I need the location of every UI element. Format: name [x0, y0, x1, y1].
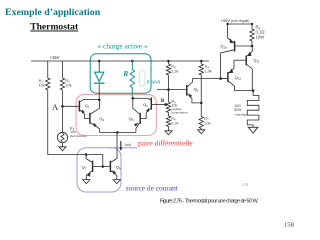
junction: Q7-Q8 base tie [102, 165, 105, 168]
svg-text:paire différentielle: paire différentielle [138, 139, 193, 148]
diode D (teal) [95, 72, 104, 81]
svg-text:0.5mA: 0.5mA [147, 81, 161, 86]
junction: R4 / +15V rail [167, 60, 170, 63]
transistor Q3 (inner left) [89, 113, 91, 124]
svg-text:R: R [122, 69, 128, 78]
svg-text:Thermostat: Thermostat [30, 22, 79, 33]
resistor R2 10k [62, 61, 64, 78]
wire: collector node to Q4 [133, 97, 148, 99]
junction: diode / Q1-Q3 collectors [98, 99, 101, 102]
ground (R6) [165, 131, 172, 135]
thermistor RT [57, 132, 67, 142]
ground (Q8) [113, 180, 120, 184]
transistor Q9 [186, 85, 188, 96]
svg-text:2.2k: 2.2k [171, 121, 178, 125]
junction: diode / +15V rail [98, 60, 101, 63]
potentiometer R5 10k [166, 102, 170, 113]
wire: R3 down through crossing to emitter node [200, 75, 202, 117]
junction: common emitters / Q8 collector [116, 131, 119, 134]
junction: Q9 emitter / R3 / R7 [200, 102, 203, 105]
svg-text:10k: 10k [65, 84, 71, 88]
svg-text:Q5: Q5 [129, 116, 134, 122]
wire: R2 to thermistor [62, 90, 64, 132]
transistor Q1 (outer left) [78, 101, 80, 112]
svg-text:10W: 10W [256, 35, 265, 40]
svg-text:170: 170 [242, 183, 248, 187]
junction: R1 / Q7 collector [85, 153, 88, 156]
1mA current arrow [120, 141, 122, 149]
junction: R / +15V rail [131, 60, 134, 63]
wire: Q9 collector to Q12 base [193, 78, 228, 80]
svg-text:10k: 10k [204, 121, 210, 125]
current loop ghost [139, 71, 145, 87]
wire: R1 down to current source [48, 90, 103, 167]
svg-text:1mA: 1mA [124, 143, 132, 147]
svg-text:158: 158 [284, 222, 295, 229]
junction: Q10 collector / Q12 base [219, 77, 222, 80]
svg-text:Exemple d’application: Exemple d’application [5, 7, 101, 18]
resistor R6 2.2k [168, 113, 170, 117]
wire: R4 to pot [168, 75, 170, 102]
transistor Q12 [227, 72, 229, 82]
ground (heater) [248, 127, 258, 133]
transistor Q10 [234, 41, 236, 52]
junction: heater top node [252, 89, 255, 92]
transistor Q5 (inner right) [139, 113, 141, 124]
transistor Q7 (current source left) [92, 161, 94, 172]
svg-text:Q12: Q12 [235, 75, 242, 81]
svg-text:A: A [52, 102, 59, 112]
heater resistor 10ohm 50W chauffage [252, 91, 254, 96]
svg-text:2.2k: 2.2k [171, 69, 178, 73]
svg-text:10Ω: 10Ω [234, 104, 241, 108]
svg-text:Q9: Q9 [194, 87, 199, 93]
box: charge active (teal) [90, 54, 151, 93]
ground (thermistor) [59, 147, 66, 151]
common emitter wire [100, 131, 136, 133]
junction: Q9 base / divider [167, 88, 170, 91]
svg-text:Q1: Q1 [85, 103, 90, 109]
junction: R / Q4-Q5 collectors [132, 97, 135, 100]
wire: blue box top overshoot [108, 147, 137, 149]
wire: thermistor to ground [62, 143, 64, 147]
box: source de courant (blue) [77, 148, 121, 192]
wire: +15V rail [31, 60, 209, 62]
svg-text:1,0k: 1,0k [205, 69, 212, 73]
box: paire differentielle (red) [76, 95, 156, 136]
wire: diode to collector node [98, 84, 100, 100]
svg-text:« charge active »: « charge active » [98, 42, 148, 51]
junction: R3 / +15V rail [200, 60, 203, 63]
svg-text:Q4: Q4 [143, 102, 148, 108]
resistor R1 15k [47, 61, 49, 78]
wire: node A to diff pair base [63, 105, 79, 107]
svg-text:+50V (non régulé): +50V (non régulé) [221, 18, 250, 23]
ground (Q7) [83, 180, 90, 184]
svg-text:source de courant: source de courant [126, 184, 179, 193]
svg-text:Q3: Q3 [99, 116, 104, 122]
svg-text:15k: 15k [39, 84, 45, 88]
svg-text:thermistance: thermistance [70, 134, 87, 138]
wire: rail to diode [98, 61, 100, 72]
svg-text:Q10: Q10 [220, 44, 227, 50]
junction: R8 / Q10 base / Q11 [251, 45, 254, 48]
transistor Q11 [245, 56, 247, 66]
transistor Q4 (outer right) [150, 98, 152, 110]
svg-text:température: température [172, 111, 189, 115]
svg-text:chauffage: chauffage [235, 112, 248, 116]
svg-text:Q7: Q7 [82, 165, 87, 171]
ground (R7) [198, 130, 205, 134]
resistor R8 0.1ohm 10W [251, 24, 253, 29]
svg-text:+15V: +15V [49, 55, 59, 60]
transistor Q8 (current source right) [109, 161, 111, 172]
svg-text:Figure 2.76 - Thermostat pour: Figure 2.76 - Thermostat pour une charge… [160, 198, 259, 204]
svg-text:Q11: Q11 [253, 58, 260, 64]
resistor R7 10k [199, 117, 203, 129]
wire: +50V rail [228, 23, 252, 25]
svg-text:Q8: Q8 [116, 165, 121, 171]
